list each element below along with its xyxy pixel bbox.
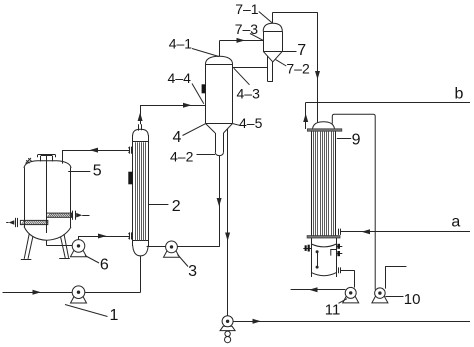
column 2 level sensor (black mark) bbox=[128, 172, 133, 185]
bottom discharge pump (with motor circles) bbox=[220, 316, 235, 343]
receiver right nozzle upper bbox=[336, 244, 342, 249]
label 6 bbox=[85, 256, 109, 274]
column 2 tubes bbox=[136, 142, 146, 240]
receiver internal dip tube bbox=[331, 250, 337, 256]
label 9 bbox=[337, 132, 361, 149]
label 1 bbox=[65, 305, 119, 324]
tank 5 upper-left stub fitting bbox=[26, 158, 32, 164]
arrow: drain 4-5 down bbox=[225, 233, 230, 242]
svg-text:4–4: 4–4 bbox=[168, 70, 192, 86]
svg-text:11: 11 bbox=[325, 302, 341, 319]
wire: condenser 9 shell loop to pump 10 bbox=[332, 114, 375, 289]
condenser 9 tube bundle bbox=[312, 131, 336, 235]
arrow: feed line right bbox=[33, 290, 42, 295]
label 4-4 bbox=[168, 70, 204, 104]
wire: pump 10 discharge stub bbox=[385, 267, 406, 289]
tank 5 (feed tank) shell bbox=[24, 161, 71, 241]
svg-text:5: 5 bbox=[93, 163, 102, 180]
label 7 bbox=[283, 42, 307, 59]
receiver level gauge bbox=[316, 250, 319, 268]
svg-text:6: 6 bbox=[100, 256, 109, 273]
arrow: vessel 4 to separator 7 right bbox=[237, 38, 246, 43]
receiver right nozzle lower bbox=[336, 251, 342, 256]
tank 5 top nozzle bbox=[38, 155, 56, 162]
label 11 bbox=[325, 299, 347, 319]
arrow: return to tank 5 left bbox=[90, 148, 99, 153]
wire: vessel 4 top riser to separator 7 bbox=[220, 40, 264, 56]
pump 6 bbox=[71, 240, 87, 257]
label 4-5 bbox=[233, 115, 263, 131]
svg-text:3: 3 bbox=[188, 263, 197, 280]
wire: condenser 9 vent riser to line b bbox=[306, 102, 471, 129]
wire: column 2 upper nozzle return to tank 5 bbox=[62, 150, 130, 164]
separator 7 shell bbox=[263, 23, 282, 51]
condenser 9 bottom tube sheet bbox=[307, 236, 340, 238]
svg-text:4–2: 4–2 bbox=[170, 149, 194, 165]
arrow: vessel 4 feed right bbox=[183, 103, 192, 108]
label 4-3 bbox=[234, 68, 260, 101]
wire: vessel 4 cone drain 4-5 down to bottom pump bbox=[227, 129, 229, 316]
wire: feed line into pump 1 bbox=[3, 292, 73, 294]
svg-text:4–3: 4–3 bbox=[237, 85, 261, 101]
label 7-2 bbox=[276, 60, 310, 77]
label 7-3 bbox=[235, 21, 263, 40]
wire: tank 5 outlet to pump 6 bbox=[47, 240, 73, 245]
arrow: bottom discharge right bbox=[253, 319, 262, 324]
svg-text:4–5: 4–5 bbox=[239, 115, 263, 131]
label 4-2 bbox=[170, 149, 215, 165]
column 2 upper-left nozzle flange bbox=[128, 147, 131, 154]
separator 7 bottom cone bbox=[263, 51, 282, 62]
heater rod E-upper (item in tank 5, right side) bbox=[47, 211, 90, 220]
wire: separator 7 top outlet over to condenser 9 bbox=[273, 12, 318, 122]
label 4-1 bbox=[169, 36, 220, 57]
receiver bottom-right outlet flange bbox=[339, 267, 341, 273]
label 7-1 bbox=[235, 1, 272, 23]
pump 3 bbox=[164, 241, 180, 257]
svg-text:b: b bbox=[455, 85, 464, 102]
arrow: column 2 riser up bbox=[138, 113, 143, 122]
vessel 4 body shell bbox=[205, 56, 232, 123]
svg-text:7–2: 7–2 bbox=[286, 60, 310, 76]
arrow: circulation down bbox=[217, 198, 222, 207]
separator 7 drain leg 7-2 (sealed pipe) bbox=[268, 56, 273, 81]
svg-text:7–1: 7–1 bbox=[235, 1, 259, 17]
column 2 top tube sheet bbox=[133, 141, 149, 143]
wire: separator 7 drain connector to vessel 4 bbox=[233, 67, 268, 69]
label 4 bbox=[173, 124, 206, 146]
wire: receiver outlet to pump 11 bbox=[340, 270, 354, 287]
svg-text:4–1: 4–1 bbox=[169, 36, 193, 52]
vessel 4 discharge neck 4-2 bbox=[215, 133, 223, 156]
arrow: pump 6 discharge right bbox=[98, 234, 107, 239]
condenser 9 top dome bbox=[313, 122, 335, 129]
svg-text:a: a bbox=[451, 214, 460, 231]
wire: pump 1 discharge to column 2 bottom bbox=[85, 256, 141, 293]
tank 5 right leg bbox=[59, 234, 70, 259]
receiver tank shell (bottom of condenser 9) bbox=[311, 238, 336, 277]
tank 5 internal dip tube bbox=[46, 156, 48, 233]
line a inlet flange bbox=[339, 229, 341, 235]
label 3 bbox=[178, 255, 198, 280]
svg-text:7–3: 7–3 bbox=[235, 21, 259, 37]
arrow: line a left bbox=[362, 229, 371, 234]
wire: vessel 4 neck down to pump 3 (circulation) bbox=[177, 156, 219, 247]
svg-text:2: 2 bbox=[172, 198, 181, 215]
wire: column 2 riser to vessel 4 feed inlet bbox=[140, 105, 205, 124]
wire: pump 3 to column 2 bottom bbox=[147, 246, 166, 248]
column 2 shell bbox=[133, 129, 149, 256]
wire: pump 11 discharge to left bbox=[291, 289, 346, 291]
wire: cooling water line a into condenser 9 bbox=[341, 231, 470, 233]
pump 1 bbox=[71, 286, 87, 303]
heater rod E-lower (item in tank 5, left side) bbox=[6, 218, 48, 227]
label 2 bbox=[149, 198, 181, 215]
wire: bottom pump discharge to right edge bbox=[233, 321, 470, 323]
receiver left nozzle valve bbox=[303, 245, 311, 252]
vessel 4 bottom cone bbox=[205, 123, 232, 133]
column 2 lower-left nozzle flange bbox=[128, 232, 131, 239]
svg-text:4: 4 bbox=[173, 129, 182, 146]
wire: pump 6 discharge to column 2 lower nozzle bbox=[79, 236, 130, 240]
label 5 bbox=[68, 163, 102, 180]
svg-text:1: 1 bbox=[110, 307, 119, 324]
label 10 bbox=[385, 291, 420, 308]
arrow: separator to condenser down bbox=[315, 71, 320, 80]
tank 5 left leg bbox=[21, 234, 33, 260]
arrow: vent riser up bbox=[303, 114, 308, 123]
column 2 bottom tube sheet bbox=[133, 240, 149, 242]
vessel 4 sensor 4-4 (black mark) bbox=[202, 84, 206, 93]
svg-text:10: 10 bbox=[404, 291, 421, 308]
arrow: pump 11 discharge left bbox=[309, 287, 318, 292]
condenser 9 top tube sheet bbox=[307, 129, 341, 131]
svg-text:9: 9 bbox=[352, 132, 361, 149]
pump 11 bbox=[343, 287, 359, 303]
column 2 top outlet stub bbox=[139, 124, 142, 130]
pump 10 bbox=[372, 288, 388, 303]
svg-text:7: 7 bbox=[297, 42, 306, 59]
